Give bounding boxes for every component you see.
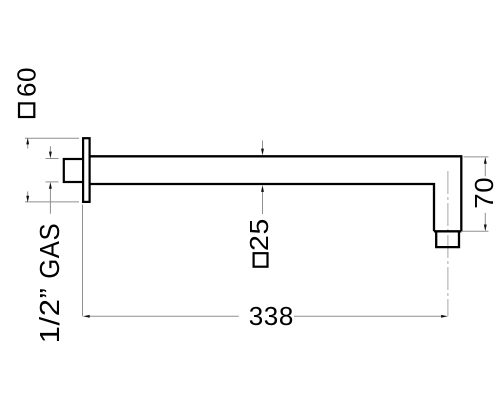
- svg-text:70: 70: [469, 177, 499, 209]
- svg-text:25: 25: [244, 218, 274, 251]
- svg-text:60: 60: [11, 67, 41, 97]
- svg-text:GAS: GAS: [34, 223, 65, 279]
- svg-text:338: 338: [249, 301, 294, 331]
- svg-text:1/2”: 1/2”: [34, 287, 65, 343]
